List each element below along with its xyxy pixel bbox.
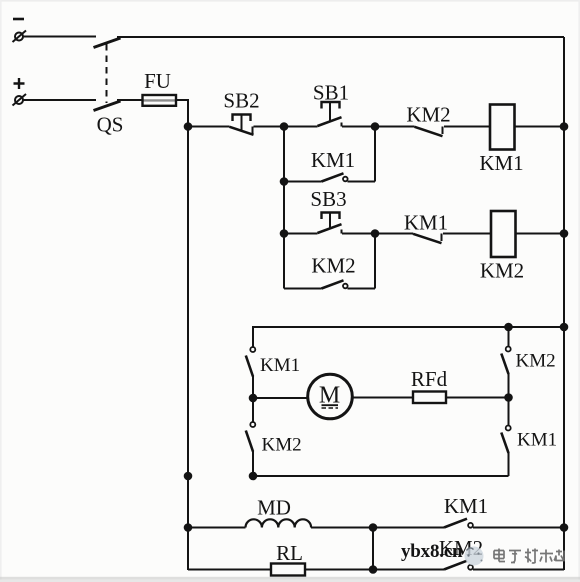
svg-text:RFd: RFd xyxy=(411,367,448,391)
wire from T1 to QS top pole xyxy=(23,36,96,38)
wire SB2 to SB1 xyxy=(254,126,318,128)
svg-text:KM2: KM2 xyxy=(262,435,302,456)
watermark text dianzi jishu kong xyxy=(494,549,564,564)
node junction bridge bottom left rail xyxy=(184,472,193,481)
terminal T1 (negative) xyxy=(13,31,27,43)
contact KM2 NO seal-in xyxy=(284,280,375,288)
label minus polarity xyxy=(13,18,24,21)
svg-text:RL: RL xyxy=(276,541,303,565)
svg-text:KM2: KM2 xyxy=(311,254,355,278)
contact KM1 NC interlock xyxy=(413,234,442,244)
wire KM2 contact to coil KM1 xyxy=(444,126,490,128)
svg-text:KM1: KM1 xyxy=(404,211,448,235)
node junction rung2 / branch right xyxy=(371,229,380,238)
svg-text:SB3: SB3 xyxy=(310,187,346,211)
svg-text:KM1: KM1 xyxy=(260,355,300,376)
resistor RL xyxy=(271,564,305,576)
node junction right rail rung1 xyxy=(560,122,569,131)
contact KM1 NO (bridge upper-left) xyxy=(246,326,256,398)
contact KM2 NO (bridge lower-left) xyxy=(246,398,256,476)
pushbutton SB3 (NO start button) xyxy=(318,213,342,234)
switch QS bottom blade xyxy=(94,101,121,111)
node junction right rail MD rung xyxy=(560,523,569,532)
node junction RL rung branch xyxy=(369,565,378,574)
wire RL to KM2 contact xyxy=(305,569,444,571)
node junction rung1 / seal branch left xyxy=(280,122,289,131)
node junction motor left xyxy=(249,394,258,403)
label plus polarity xyxy=(14,78,25,89)
wire seal branch right vertical rung2 xyxy=(374,234,376,289)
contact KM1 NO (bridge lower-right) xyxy=(501,398,510,477)
inductor MD xyxy=(246,519,312,527)
wire from T2 to QS bottom pole xyxy=(23,99,96,101)
wire seal branch right vertical rung1 xyxy=(374,127,376,182)
svg-text:KM1: KM1 xyxy=(444,494,488,518)
node junction bridge bottom left branch xyxy=(249,472,258,481)
svg-text:FU: FU xyxy=(144,69,171,93)
switch QS mechanical dashed link xyxy=(106,44,108,103)
wire branch vertical MD-RL xyxy=(372,528,374,570)
svg-text:MD: MD xyxy=(257,496,291,520)
node junction right rail rung2 xyxy=(560,229,569,238)
contact KM1 NO seal-in xyxy=(284,173,375,181)
wire bridge bottom bus xyxy=(253,475,509,477)
wire QS to fuse FU xyxy=(117,99,143,101)
svg-text:KM1: KM1 xyxy=(479,151,523,175)
svg-text:ybx8.cn: ybx8.cn xyxy=(401,541,463,562)
coil KM1 xyxy=(490,105,515,150)
node junction seal branch KM1 aux xyxy=(280,177,289,186)
node junction motor right xyxy=(504,393,513,402)
wire motor to RFd xyxy=(353,397,414,399)
svg-text:KM1: KM1 xyxy=(311,148,355,172)
wire inductor to node xyxy=(311,527,444,529)
contact KM2 NO (bridge upper-right) xyxy=(501,326,510,398)
contact KM1 NO (MD rung) xyxy=(444,519,564,528)
wire SB3 to KM1 NC contact xyxy=(342,233,413,235)
wire coil KM1 to right rail xyxy=(515,126,565,128)
node junction bridge top right rail xyxy=(560,323,569,332)
svg-text:SB2: SB2 xyxy=(223,89,259,113)
wire MD rung left segment xyxy=(188,527,246,529)
wire SB1 to KM2 NC contact xyxy=(342,126,415,128)
node junction left rail MD rung xyxy=(184,523,193,532)
wire RL rung left segment xyxy=(188,569,271,571)
contact KM2 NO (RL rung) xyxy=(444,561,564,570)
node junction seal branch left rung2 xyxy=(280,229,289,238)
wire rung2 left segment xyxy=(284,233,318,235)
coil KM2 xyxy=(491,211,516,257)
pushbutton SB1 (NO start button) xyxy=(318,102,342,127)
wire fuse to left rail corner xyxy=(176,99,188,101)
fuse FU xyxy=(143,95,177,106)
wire motor left segment xyxy=(253,397,308,399)
svg-text:QS: QS xyxy=(97,113,124,137)
wire seal branch left vertical xyxy=(283,127,285,289)
wire RFd to bridge right branch xyxy=(446,397,509,399)
terminal T2 (positive) xyxy=(13,94,27,106)
wire top bus from QS to right rail xyxy=(117,36,564,38)
resistor RFd xyxy=(413,392,446,404)
pushbutton SB2 (NC stop button) xyxy=(230,115,254,135)
node junction left rail rung1 xyxy=(184,122,193,131)
motor M xyxy=(308,374,353,419)
svg-text:KM2: KM2 xyxy=(406,103,450,127)
wire right rail xyxy=(563,37,565,570)
wire bridge top bus xyxy=(253,326,564,328)
wire KM1 contact to coil KM2 xyxy=(443,233,491,235)
wire coil KM2 to right rail xyxy=(516,233,565,235)
svg-text:KM2: KM2 xyxy=(480,259,524,283)
svg-text:KM2: KM2 xyxy=(516,351,556,372)
switch QS top blade xyxy=(94,38,121,48)
watermark logo icon xyxy=(465,547,484,566)
svg-text:KM1: KM1 xyxy=(517,430,557,451)
contact KM2 NC interlock xyxy=(415,127,443,137)
node junction rung1 / seal branch right xyxy=(371,122,380,131)
node junction bridge top right branch xyxy=(504,323,513,332)
node junction MD rung branch xyxy=(369,523,378,532)
wire rung1 left segment xyxy=(188,126,230,128)
wire left rail xyxy=(187,99,189,570)
